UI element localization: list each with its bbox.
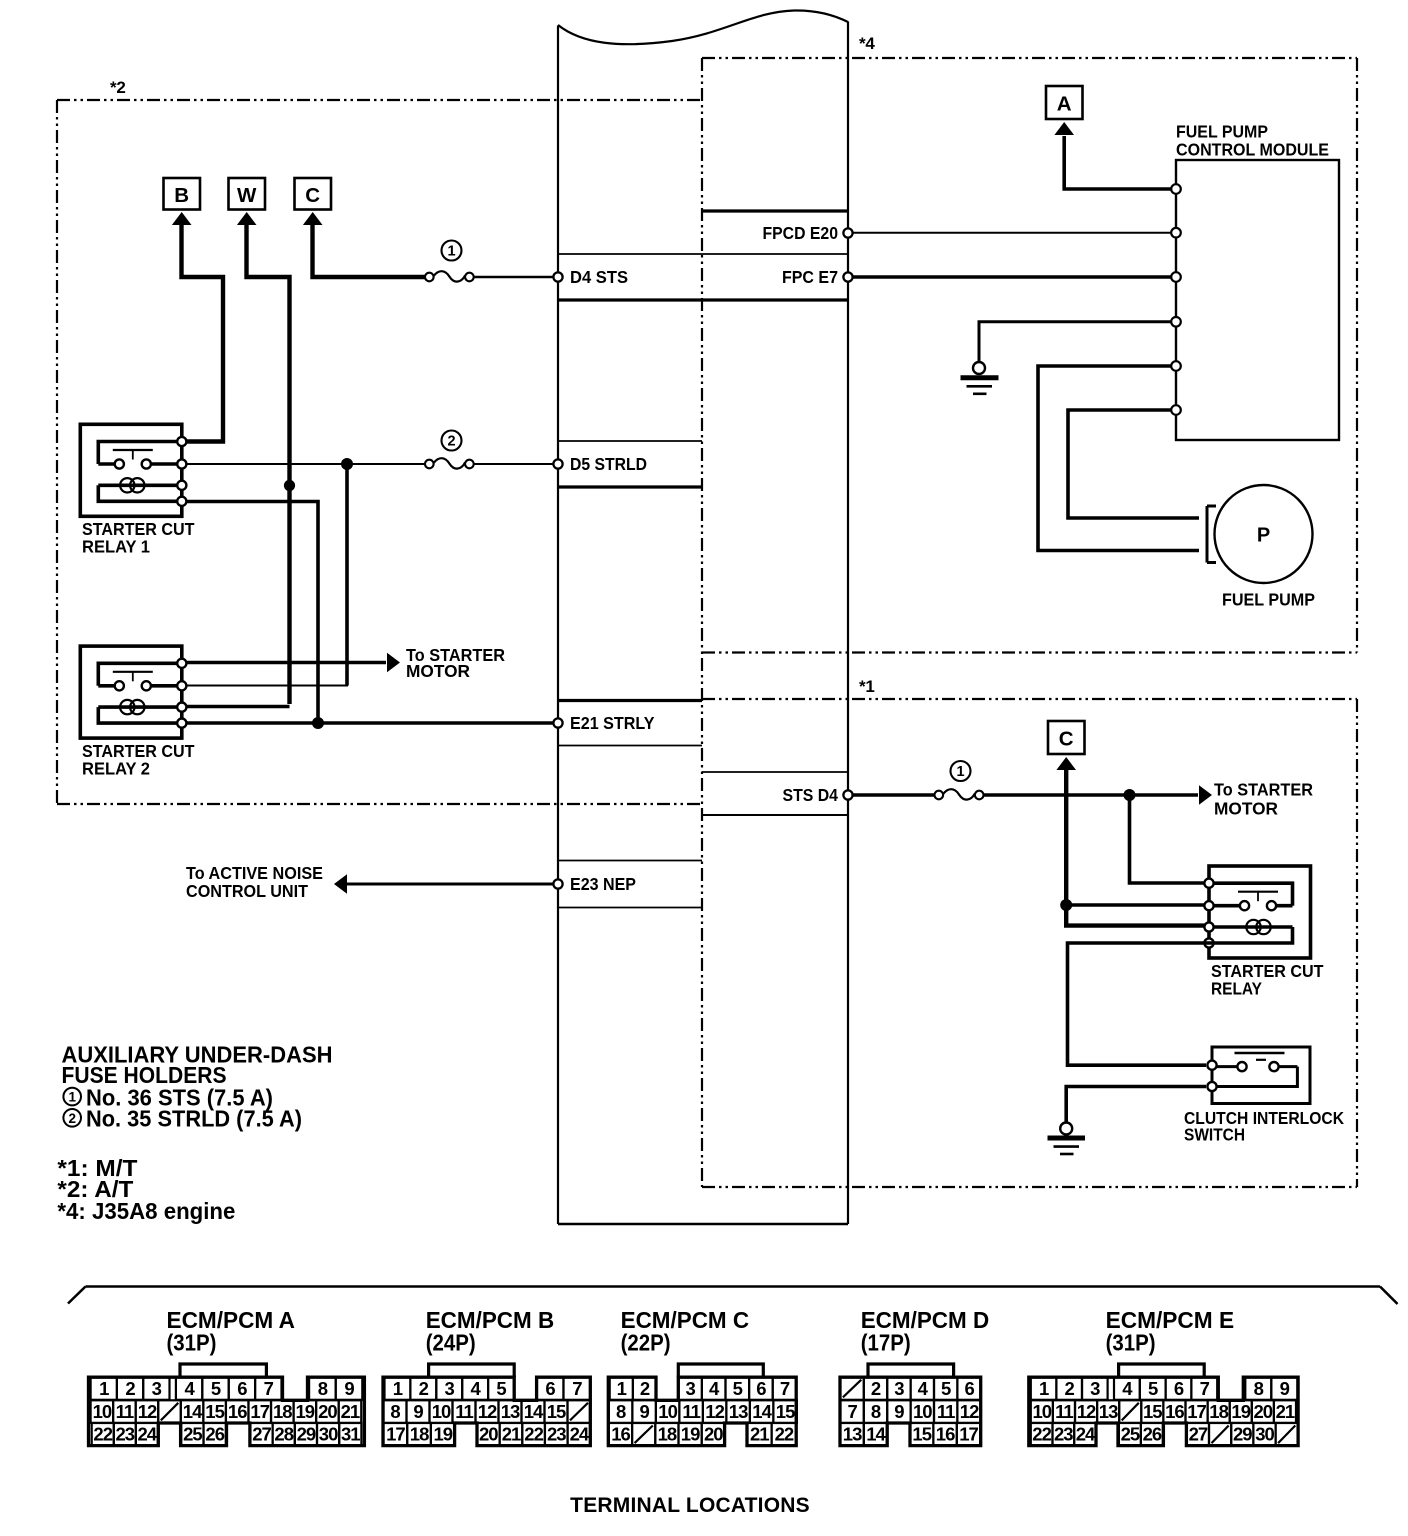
svg-text:8: 8: [1254, 1378, 1264, 1399]
svg-text:12: 12: [138, 1401, 157, 1422]
svg-text:E23 NEP: E23 NEP: [570, 874, 636, 894]
fuel pump control module box: [1176, 160, 1339, 440]
row separator thin (full width): [558, 253, 848, 255]
svg-text:27: 27: [252, 1424, 271, 1445]
ECM/PCM connector C pin grid: [608, 1364, 797, 1446]
starter cut relay 2: [80, 646, 186, 738]
svg-text:10: 10: [432, 1401, 451, 1422]
ground G101 (fuel pump module): [961, 362, 999, 394]
svg-text:16: 16: [611, 1424, 630, 1445]
svg-text:(17P): (17P): [861, 1329, 911, 1355]
svg-text:10: 10: [93, 1401, 112, 1422]
label STARTER CUT RELAY (M/T): [1211, 961, 1324, 999]
svg-text:(22P): (22P): [621, 1329, 671, 1355]
fuse 1 label circled 1: [442, 241, 462, 261]
svg-text:12: 12: [960, 1401, 979, 1422]
svg-text:19: 19: [434, 1424, 453, 1445]
wire module pin6 to fuel pump (inner): [1068, 410, 1199, 518]
wire pin E23 NEP to active noise control unit (arrow left): [334, 874, 554, 894]
svg-text:D5 STRLD: D5 STRLD: [570, 454, 647, 474]
ECM/PCM connector D header: [861, 1307, 990, 1355]
svg-text:1: 1: [956, 764, 964, 780]
fuse 1 (No.36 STS): [425, 271, 474, 281]
svg-text:*2: *2: [110, 78, 125, 97]
svg-text:14: 14: [752, 1401, 772, 1422]
svg-text:18: 18: [658, 1424, 677, 1445]
svg-text:5: 5: [733, 1378, 743, 1399]
svg-text:E21 STRLY: E21 STRLY: [570, 713, 655, 733]
svg-text:6: 6: [237, 1378, 247, 1399]
svg-text:3: 3: [894, 1378, 904, 1399]
row separator above E23 NEP: [558, 860, 702, 862]
svg-text:18: 18: [410, 1424, 429, 1445]
svg-text:24: 24: [138, 1424, 158, 1445]
svg-text:17: 17: [386, 1424, 405, 1445]
svg-text:20: 20: [1254, 1401, 1273, 1422]
fuse 3 label circled 1: [951, 761, 971, 781]
svg-text:18: 18: [1209, 1401, 1228, 1422]
svg-text:17: 17: [250, 1401, 269, 1422]
svg-text:11: 11: [116, 1401, 134, 1422]
svg-text:RELAY: RELAY: [1211, 979, 1262, 999]
row separator below FPC E7 / D4 STS (thick): [558, 298, 848, 301]
svg-text:2: 2: [125, 1378, 135, 1399]
svg-text:28: 28: [274, 1424, 293, 1445]
terminal locations panel outline: [68, 1287, 1398, 1305]
svg-text:3: 3: [445, 1378, 455, 1399]
svg-text:2: 2: [1065, 1378, 1075, 1399]
svg-text:9: 9: [894, 1401, 904, 1422]
wire relay coil return to clutch interlock switch: [1068, 943, 1214, 1065]
pin E21 STRLY: [553, 713, 654, 733]
ground G (clutch interlock): [1048, 1123, 1086, 1155]
row separator above D5 STRLD: [558, 440, 702, 442]
svg-text:20: 20: [318, 1401, 337, 1422]
svg-text:FPC E7: FPC E7: [782, 267, 838, 287]
svg-text:3: 3: [152, 1378, 162, 1399]
svg-text:5: 5: [496, 1378, 506, 1399]
svg-text:7: 7: [847, 1401, 857, 1422]
label STARTER CUT RELAY 2: [82, 741, 195, 779]
svg-text:*4: *4: [859, 34, 875, 53]
wire module pin5 to fuel pump (outer): [1038, 366, 1199, 551]
svg-text:11: 11: [937, 1401, 955, 1422]
svg-text:10: 10: [1033, 1401, 1052, 1422]
junction W wire / relay1 coil: [284, 480, 295, 491]
svg-text:1: 1: [393, 1378, 403, 1399]
module pin terminals: [1171, 184, 1181, 415]
label FUEL PUMP CONTROL MODULE: [1176, 122, 1329, 160]
svg-text:15: 15: [205, 1401, 224, 1422]
svg-text:MOTOR: MOTOR: [1214, 799, 1278, 819]
note fuse 2 No. 35 STRLD: [63, 1106, 302, 1132]
svg-text:9: 9: [1280, 1378, 1290, 1399]
svg-text:RELAY 1: RELAY 1: [82, 537, 150, 557]
svg-text:7: 7: [1200, 1378, 1210, 1399]
svg-text:(24P): (24P): [426, 1329, 476, 1355]
svg-text:6: 6: [545, 1378, 555, 1399]
wire W vertical: [247, 225, 290, 704]
svg-text:7: 7: [264, 1378, 274, 1399]
wire relay2 switch riser to D5 junction: [187, 464, 348, 686]
wire relay2 coil to W riser: [187, 705, 290, 709]
svg-text:29: 29: [297, 1424, 316, 1445]
connector W: [229, 178, 266, 225]
svg-text:3: 3: [685, 1378, 695, 1399]
svg-text:12: 12: [705, 1401, 724, 1422]
svg-text:To ACTIVE NOISE: To ACTIVE NOISE: [186, 863, 323, 883]
svg-text:10: 10: [913, 1401, 932, 1422]
svg-text:C: C: [305, 184, 320, 207]
svg-text:25: 25: [1121, 1424, 1140, 1445]
svg-text:14: 14: [524, 1401, 544, 1422]
svg-text:*4: J35A8 engine: *4: J35A8 engine: [57, 1198, 235, 1224]
svg-text:10: 10: [658, 1401, 677, 1422]
svg-text:9: 9: [413, 1401, 423, 1422]
svg-text:30: 30: [1255, 1424, 1274, 1445]
pin FPCD E20: [763, 223, 853, 243]
wire relay1 coil return riser to E21 line: [187, 502, 319, 724]
svg-text:8: 8: [616, 1401, 626, 1422]
svg-text:RELAY 2: RELAY 2: [82, 759, 150, 779]
svg-text:24: 24: [1076, 1424, 1096, 1445]
svg-text:MOTOR: MOTOR: [406, 661, 470, 681]
fuse 2 (No.35 STRLD): [425, 458, 474, 468]
junction C wire / relay switch: [1060, 899, 1072, 911]
wire relay2 pin1 to starter motor (arrow): [187, 653, 401, 673]
svg-text:23: 23: [547, 1424, 566, 1445]
wire B to starter cut relay 1 pin 1: [182, 225, 224, 442]
svg-text:7: 7: [780, 1378, 790, 1399]
svg-text:TERMINAL LOCATIONS: TERMINAL LOCATIONS: [570, 1494, 810, 1517]
svg-text:14: 14: [183, 1401, 203, 1422]
svg-text:26: 26: [1143, 1424, 1162, 1445]
label To STARTER MOTOR (right): [1214, 780, 1313, 819]
svg-text:13: 13: [843, 1424, 862, 1445]
wire STS junction to relay pin1: [1130, 795, 1207, 883]
svg-text:20: 20: [479, 1424, 498, 1445]
svg-text:2: 2: [419, 1378, 429, 1399]
wire fuse 1 to pin D4 STS: [474, 276, 554, 279]
svg-text:21: 21: [1276, 1401, 1295, 1422]
svg-text:5: 5: [211, 1378, 221, 1399]
svg-text:8: 8: [871, 1401, 881, 1422]
starter cut relay (M/T): [1204, 866, 1310, 958]
svg-text:FUEL PUMP: FUEL PUMP: [1222, 590, 1315, 610]
connector B: [164, 178, 201, 225]
wire relay2 pin4 to pin E21 STRLY: [187, 721, 555, 725]
wire module pin4 to ground: [979, 322, 1172, 362]
pin STS D4: [783, 785, 853, 805]
svg-text:22: 22: [775, 1424, 794, 1445]
clutch interlock switch: [1207, 1047, 1310, 1104]
wire fuse 3 to starter motor (arrow): [983, 785, 1212, 805]
svg-text:5: 5: [941, 1378, 951, 1399]
svg-text:P: P: [1257, 525, 1270, 547]
svg-text:To STARTER: To STARTER: [1214, 780, 1313, 800]
fuse 2 label circled 2: [442, 431, 462, 451]
note AUXILIARY UNDER-DASH FUSE HOLDERS: [62, 1042, 333, 1089]
svg-text:8: 8: [390, 1401, 400, 1422]
connector C (M/T) box: [1048, 721, 1085, 770]
svg-text:13: 13: [1099, 1401, 1118, 1422]
fuse 3 (No.36 STS, M/T): [935, 789, 984, 799]
svg-text:1: 1: [1039, 1378, 1049, 1399]
dashed box *4 (J35A8 engine area): [702, 58, 1357, 653]
svg-text:19: 19: [681, 1424, 700, 1445]
note fuse 1 No. 36 STS: [63, 1084, 273, 1110]
fuel pump motor: [1207, 485, 1313, 583]
svg-text:27: 27: [1189, 1424, 1208, 1445]
svg-text:A: A: [1057, 93, 1072, 116]
svg-text:25: 25: [183, 1424, 202, 1445]
svg-text:22: 22: [524, 1424, 543, 1445]
wire pin FPCD E20 to module: [852, 232, 1172, 234]
svg-text:1: 1: [617, 1378, 627, 1399]
label STARTER CUT RELAY 1: [82, 519, 195, 557]
wire pin FPC E7 to module: [852, 275, 1172, 279]
svg-text:21: 21: [502, 1424, 521, 1445]
svg-text:23: 23: [116, 1424, 135, 1445]
wire junction to relay switch pin: [1066, 903, 1206, 907]
row separator above E21 STRLY (thick): [558, 699, 702, 702]
svg-text:9: 9: [344, 1378, 354, 1399]
ECM/PCM connector A header: [167, 1307, 296, 1355]
svg-text:14: 14: [866, 1424, 886, 1445]
svg-text:12: 12: [1077, 1401, 1096, 1422]
svg-text:15: 15: [1143, 1401, 1162, 1422]
svg-text:21: 21: [341, 1401, 360, 1422]
svg-text:1: 1: [68, 1090, 76, 1105]
wire fuse 2 to pin D5 STRLD: [474, 463, 554, 465]
row separator below D5 STRLD (thick): [558, 485, 702, 488]
svg-text:No. 35 STRLD (7.5 A): No. 35 STRLD (7.5 A): [86, 1106, 302, 1132]
svg-text:CONTROL MODULE: CONTROL MODULE: [1176, 140, 1329, 160]
svg-text:7: 7: [572, 1378, 582, 1399]
svg-text:29: 29: [1233, 1424, 1252, 1445]
label CLUTCH INTERLOCK SWITCH: [1184, 1108, 1344, 1145]
svg-text:22: 22: [93, 1424, 112, 1445]
svg-text:15: 15: [547, 1401, 566, 1422]
svg-text:24: 24: [570, 1424, 590, 1445]
dashed box *2 (A/T option area): [57, 100, 702, 804]
svg-text:3: 3: [1090, 1378, 1100, 1399]
svg-text:23: 23: [1054, 1424, 1073, 1445]
svg-text:SWITCH: SWITCH: [1184, 1125, 1245, 1145]
label To STARTER MOTOR (left): [406, 645, 505, 681]
svg-text:FUEL PUMP: FUEL PUMP: [1176, 122, 1268, 142]
svg-text:C: C: [1059, 728, 1074, 751]
svg-text:6: 6: [1174, 1378, 1184, 1399]
ECM/PCM connector C header: [621, 1307, 750, 1355]
svg-text:16: 16: [1165, 1401, 1184, 1422]
svg-text:21: 21: [750, 1424, 769, 1445]
wire C to fuse 1: [313, 225, 426, 277]
svg-text:19: 19: [296, 1401, 315, 1422]
junction STS line / relay riser: [1124, 789, 1136, 801]
svg-text:11: 11: [682, 1401, 700, 1422]
svg-text:31: 31: [341, 1424, 360, 1445]
starter cut relay 1: [80, 424, 186, 516]
svg-text:W: W: [237, 184, 257, 207]
row separator above STS D4: [702, 771, 848, 773]
svg-text:11: 11: [1055, 1401, 1073, 1422]
pin D4 STS: [553, 267, 628, 287]
label To ACTIVE NOISE CONTROL UNIT: [186, 863, 323, 901]
svg-text:18: 18: [273, 1401, 292, 1422]
row separator below E23 NEP: [558, 907, 702, 909]
svg-text:2: 2: [871, 1378, 881, 1399]
dash-dot divider at x=702: [701, 58, 703, 1187]
svg-text:9: 9: [639, 1401, 649, 1422]
connector C: [295, 178, 332, 225]
svg-text:6: 6: [756, 1378, 766, 1399]
svg-text:13: 13: [729, 1401, 748, 1422]
svg-text:B: B: [174, 184, 189, 207]
row separator below E21 STRLY: [558, 745, 702, 747]
junction on D5 line: [341, 458, 353, 470]
svg-text:2: 2: [640, 1378, 650, 1399]
svg-text:1: 1: [99, 1378, 109, 1399]
svg-text:6: 6: [964, 1378, 974, 1399]
ECM/PCM connector E header: [1106, 1307, 1235, 1355]
svg-text:2: 2: [68, 1111, 76, 1126]
pin D5 STRLD: [553, 454, 647, 474]
row separator above FPCD E20 (thick): [702, 209, 848, 212]
svg-text:30: 30: [319, 1424, 338, 1445]
connector A box: [1046, 86, 1083, 119]
svg-text:12: 12: [478, 1401, 497, 1422]
svg-text:STS D4: STS D4: [783, 785, 839, 805]
svg-text:1: 1: [447, 244, 455, 260]
wire module pin1 to connector A (arrow up): [1054, 122, 1172, 189]
junction riser / E21 line: [312, 717, 324, 729]
row separator below STS D4: [702, 814, 848, 816]
pin FPC E7: [782, 267, 853, 287]
ECM/PCM connector D pin grid: [840, 1364, 981, 1446]
wire clutch interlock switch to ground: [1066, 1087, 1206, 1123]
wire pin STS D4 to fuse 3: [852, 793, 935, 797]
svg-text:15: 15: [776, 1401, 795, 1422]
riser relay2 switch thick part: [345, 466, 349, 686]
svg-text:13: 13: [501, 1401, 520, 1422]
svg-text:22: 22: [1032, 1424, 1051, 1445]
dashed box *1 (M/T option area): [702, 699, 1357, 1187]
ECM/PCM connector B header: [426, 1307, 555, 1355]
svg-text:16: 16: [936, 1424, 955, 1445]
svg-text:19: 19: [1231, 1401, 1250, 1422]
ECM/PCM connector B pin grid: [383, 1364, 591, 1446]
svg-text:CONTROL UNIT: CONTROL UNIT: [186, 881, 308, 901]
svg-text:26: 26: [205, 1424, 224, 1445]
ECM/PCM column outline: [558, 10, 848, 1224]
svg-text:16: 16: [228, 1401, 247, 1422]
svg-text:11: 11: [455, 1401, 473, 1422]
svg-text:20: 20: [704, 1424, 723, 1445]
svg-text:2: 2: [447, 434, 455, 450]
wire relay1 switch to fuse 2 (D5 STRLD line): [187, 463, 428, 465]
svg-text:(31P): (31P): [1106, 1329, 1156, 1355]
svg-text:*1: *1: [859, 677, 874, 696]
svg-text:D4 STS: D4 STS: [570, 267, 628, 287]
svg-text:(31P): (31P): [167, 1329, 217, 1355]
svg-text:8: 8: [318, 1378, 328, 1399]
svg-text:17: 17: [1187, 1401, 1206, 1422]
svg-text:17: 17: [959, 1424, 978, 1445]
svg-text:5: 5: [1148, 1378, 1158, 1399]
ECM/PCM connector E pin grid: [1029, 1364, 1298, 1446]
pin E23 NEP: [553, 874, 636, 894]
wire connector C down through STS line to relay: [1066, 770, 1206, 926]
ECM/PCM connector A pin grid: [89, 1364, 365, 1446]
svg-text:FPCD E20: FPCD E20: [763, 223, 839, 243]
svg-text:15: 15: [912, 1424, 931, 1445]
